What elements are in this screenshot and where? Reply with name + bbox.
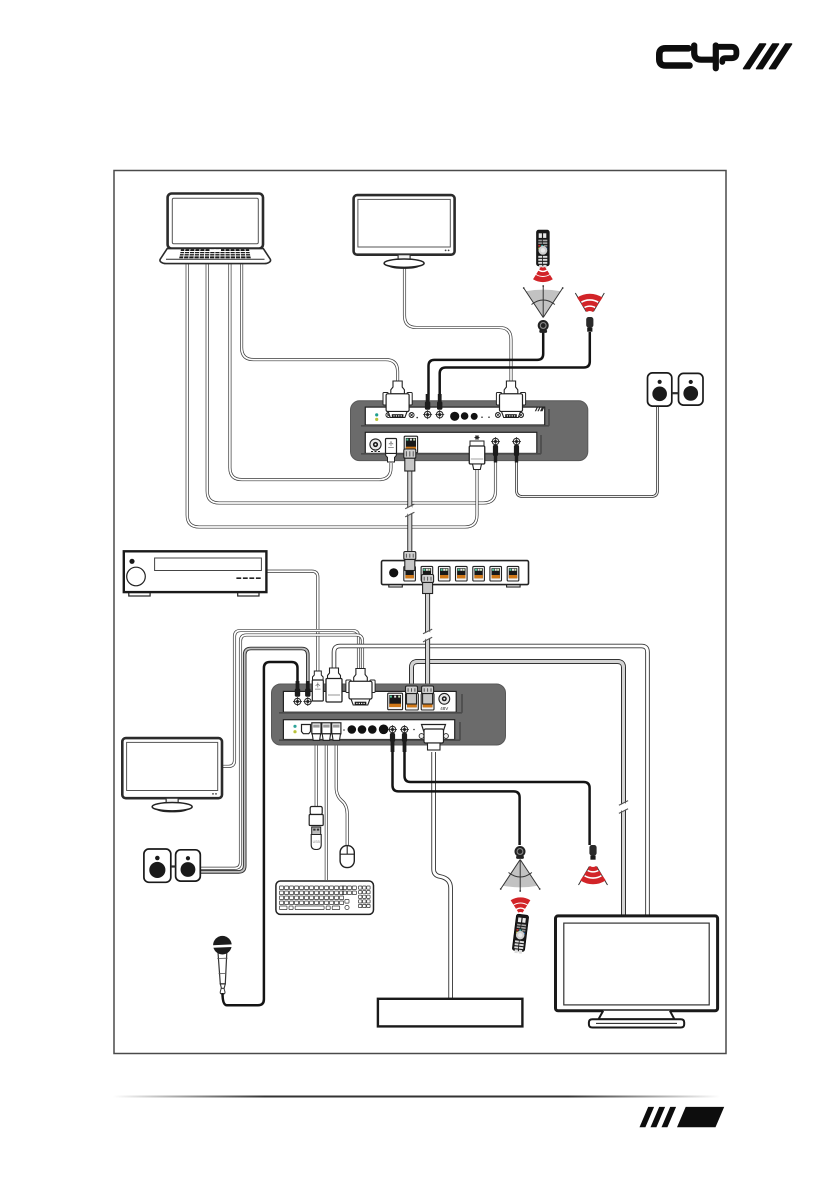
RJ45 plug to switch: [404, 449, 416, 471]
VGA in port (TX): [386, 413, 414, 418]
remote control (top): [537, 230, 550, 268]
microphone cable tail: [223, 993, 228, 1005]
receiver rear panel: [283, 720, 454, 740]
wire amplifier to receiver audio-in: [266, 571, 318, 673]
RJ45 port B (RX): [421, 694, 434, 711]
knob 3 (TX): [471, 413, 478, 420]
DVI port (RX): [422, 725, 446, 733]
IR receiver head (top): [538, 320, 549, 333]
IR receiver eye cone (bottom): [500, 860, 541, 892]
ethernet switch: [382, 561, 529, 587]
USB port 2 (RX): [322, 723, 331, 741]
speaker link wire (bottom): [171, 865, 176, 867]
CAT cable transmitter to switch: [407, 470, 412, 552]
DC power jack (RX): [439, 693, 450, 711]
IR-in jack rear (RX): [388, 725, 397, 734]
panel label (RX): [413, 729, 415, 731]
line-in plug (TX): [493, 445, 498, 463]
svg-text:48V: 48V: [440, 706, 448, 711]
wire laptop USB to transmitter USB-B: [230, 262, 391, 480]
LED power (TX): [375, 413, 378, 416]
USB flash drive: [311, 827, 321, 850]
switch port 3: [438, 566, 450, 581]
USB port 3 (RX): [332, 723, 341, 741]
svg-text:USB: USB: [313, 840, 321, 844]
laptop: [160, 194, 271, 264]
wire laptop VGA to transmitter VGA-in: [242, 262, 398, 384]
HDMI port (RX): [302, 725, 311, 734]
wire receiver USB to mouse: [336, 740, 347, 846]
IR-out jack (TX): [435, 410, 444, 419]
knob 1 (RX): [348, 725, 357, 734]
IR receiver eye cone (top): [523, 285, 564, 317]
IR waves from remote2: [512, 900, 529, 911]
HDMI-out connector (RX): [326, 668, 342, 702]
CYP mini logo on TX: [535, 407, 545, 411]
switch port 6: [490, 566, 502, 581]
VGA out port (TX): [495, 413, 523, 418]
wire laptop audio to transmitter line-in: [207, 262, 495, 503]
LED power (RX): [293, 725, 296, 728]
receiver unit body: [272, 684, 506, 745]
LED status (RX): [293, 730, 296, 733]
USB port 1 (RX): [312, 723, 321, 741]
wire speakers2 white to receiver: [201, 635, 363, 868]
RJ45 plug B (RX): [422, 686, 434, 704]
DVI connector to soundbar (RX): [419, 729, 448, 750]
line-out plug (RX): [305, 681, 310, 697]
USB-B connector from laptop (TX): [386, 439, 397, 463]
IR plug 1 rear (RX): [390, 733, 395, 752]
wire monitor2 to receiver VGA: [221, 631, 359, 767]
wire transmitter audio-out to speakers: [517, 406, 658, 497]
RJ45 plug from transmitter in switch port 1: [404, 552, 416, 571]
CAT cable switch to receiver: [425, 592, 430, 690]
remote control (bottom): [512, 914, 529, 954]
wire speakers2 audio to receiver line-out: [201, 649, 308, 872]
receiver front panel: [283, 691, 456, 712]
USB-A connector (TX): [469, 446, 485, 470]
USB-A port slot (TX): [470, 441, 484, 447]
wire microphone to receiver mic-in: [227, 662, 298, 1005]
VGA connector from monitor2 (RX): [346, 669, 375, 706]
speaker right (bottom): [176, 850, 201, 881]
DC power jack (TX): [370, 439, 381, 452]
wire laptop USB2 to transmitter USB-A: [187, 262, 477, 527]
USB-A port label (TX): [475, 435, 480, 440]
cable break receiver-TV: [619, 801, 628, 814]
LED status (TX): [375, 418, 378, 421]
speaker link wire (top): [672, 392, 679, 394]
wire receiver IR-in to IR receiver2: [393, 752, 520, 845]
line-out plug (TX): [514, 445, 519, 463]
wire receiver IR-out to IR emitter2: [405, 752, 590, 845]
panel dots (TX): [481, 416, 483, 418]
IR-out jack rear (RX): [400, 725, 409, 734]
TV: [556, 916, 718, 1028]
speaker right (top): [679, 373, 704, 405]
mic plug (RX): [295, 681, 300, 697]
CYP logo: [659, 46, 736, 69]
IR emitter beam (top): [575, 293, 604, 312]
switch port 5: [473, 566, 485, 581]
transmitter rear panel: [365, 432, 537, 453]
switch port 2: [421, 566, 433, 581]
IR plug in TX jack1: [425, 394, 430, 410]
keyboard: [276, 881, 374, 914]
panel dot (RX): [343, 729, 345, 731]
knob 1 (TX): [450, 412, 459, 421]
knob 2 (TX): [461, 412, 469, 420]
wire IR emitter to transmitter IR-out: [440, 332, 590, 400]
soundbar: [378, 999, 523, 1027]
amplifier: [124, 551, 267, 596]
CAT cable receiver to TV zone: [412, 662, 624, 916]
IR emitter beam (bottom): [579, 867, 608, 886]
speaker left (bottom): [144, 849, 171, 882]
RJ45 LAN port (RX): [388, 693, 403, 710]
RJ45 port (TX): [404, 436, 417, 453]
line-out jack (RX): [303, 697, 312, 706]
switch power button: [389, 568, 398, 577]
line-out jack (TX): [512, 437, 521, 446]
switch port 4: [456, 566, 468, 581]
USB extension coupler: [309, 807, 323, 826]
IR plug 2 rear (RX): [402, 733, 407, 752]
mouse: [340, 846, 354, 868]
IR emitter head (bottom): [589, 845, 596, 860]
IR plug in TX jack2: [437, 394, 442, 410]
speaker left (top): [648, 373, 672, 406]
cable break TX-switch: [405, 504, 414, 517]
IR emitter head (top): [586, 317, 593, 332]
knob 3 (RX): [368, 725, 377, 734]
transmitter front panel: [365, 407, 544, 425]
wire receiver HDMI-out to TV: [334, 646, 648, 915]
wire IR receiver to transmitter IR-in: [429, 332, 544, 400]
cable break switch-RX: [423, 629, 432, 642]
microphone: [213, 936, 232, 994]
RJ45 plug A (RX): [406, 686, 418, 704]
footer logo: [640, 1107, 725, 1127]
USB-B connector from amplifier (RX): [312, 671, 323, 701]
IR receiver head (bottom): [515, 846, 526, 859]
monitor (bottom): [122, 738, 222, 812]
IR-in jack (TX): [423, 410, 432, 419]
line-in jack (TX): [491, 437, 500, 446]
mic jack (RX): [293, 697, 302, 706]
knob 2 (RX): [358, 725, 367, 734]
knob 4 (RX): [379, 725, 389, 735]
wire monitor to transmitter VGA-out: [405, 264, 512, 384]
wire receiver USB to keyboard: [325, 740, 328, 880]
diagram frame: [114, 171, 726, 1054]
wire receiver USB to flash drive: [315, 740, 318, 809]
VGA connector to monitor: [496, 381, 525, 418]
IR waves from remote: [534, 268, 551, 279]
switch port 1: [404, 566, 416, 581]
monitor (top): [354, 195, 455, 268]
wire receiver DVI to soundbar: [434, 752, 451, 998]
transmitter unit body: [351, 401, 588, 461]
RJ45 port A (RX): [406, 694, 419, 711]
switch port 7: [507, 566, 519, 581]
RJ45 plug to receiver in switch port 2: [422, 575, 434, 594]
VGA connector from laptop: [383, 381, 412, 418]
